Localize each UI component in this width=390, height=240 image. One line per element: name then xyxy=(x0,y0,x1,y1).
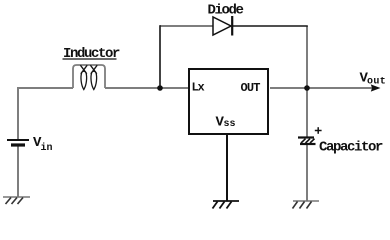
svg-text:in: in xyxy=(41,142,53,154)
svg-text:OUT: OUT xyxy=(241,81,261,95)
svg-text:Diode: Diode xyxy=(208,3,244,19)
svg-text:out: out xyxy=(367,77,386,88)
svg-text:Capacitor: Capacitor xyxy=(319,140,383,156)
svg-text:ss: ss xyxy=(224,119,236,130)
svg-text:Lx: Lx xyxy=(192,81,205,95)
